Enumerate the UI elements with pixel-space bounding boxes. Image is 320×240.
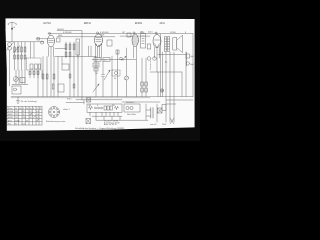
svg-text:220V: 220V (162, 124, 167, 126)
svg-text:0,5: 0,5 (121, 59, 124, 61)
svg-text:0,1: 0,1 (95, 59, 98, 61)
svg-text:ECH11: ECH11 (8, 111, 13, 113)
svg-text:250: 250 (23, 117, 26, 119)
svg-text:0,1: 0,1 (104, 59, 107, 61)
svg-text:1M: 1M (95, 73, 98, 75)
svg-text:EBF11: EBF11 (8, 114, 13, 116)
svg-text:50: 50 (114, 78, 116, 80)
svg-text:Entbr.: Entbr. (67, 98, 72, 101)
svg-text:Röhrenfassung von unten: Röhrenfassung von unten (46, 120, 65, 123)
svg-text:Ua: Ua (26, 108, 28, 110)
svg-text:AZ11: AZ11 (8, 119, 12, 122)
svg-text:250: 250 (15, 117, 18, 119)
svg-text:5,5: 5,5 (30, 114, 32, 116)
svg-text:zum LS: zum LS (150, 124, 157, 126)
svg-text:Ik: Ik (33, 108, 34, 110)
svg-text:Ug: Ug (30, 108, 32, 110)
svg-text:Aufn. ca. 45 W: Aufn. ca. 45 W (104, 123, 117, 126)
svg-text:Röhre: Röhre (8, 107, 13, 110)
svg-text:0,2: 0,2 (23, 123, 25, 125)
svg-text:100/250: 100/250 (57, 29, 64, 31)
svg-text:60: 60 (26, 120, 28, 122)
svg-text:5000: 5000 (94, 65, 98, 67)
svg-text:0,1/3000V: 0,1/3000V (100, 32, 109, 34)
svg-text:225: 225 (15, 114, 18, 116)
svg-text:0,1: 0,1 (15, 123, 17, 125)
svg-text:W1: W1 (89, 105, 92, 107)
svg-text:EFM11: EFM11 (135, 23, 143, 25)
svg-text:AZ11: AZ11 (160, 22, 166, 25)
svg-text:85: 85 (23, 111, 25, 113)
svg-text:Ua: Ua (15, 108, 17, 110)
svg-text:(Nr. der Schaltung): (Nr. der Schaltung) (21, 100, 37, 103)
svg-text:90: 90 (23, 114, 25, 116)
svg-text:Ug: Ug (19, 108, 21, 110)
svg-text:6,3: 6,3 (37, 114, 39, 116)
svg-text:2,1: 2,1 (30, 111, 32, 113)
svg-text:Schaltbild des Gerätes — Ori: Schaltbild des Gerätes — Original-Schalt… (75, 127, 125, 130)
svg-text:Ik: Ik (23, 108, 24, 110)
svg-text:220/240 V: 220/240 V (126, 102, 135, 104)
svg-text:36: 36 (30, 117, 32, 119)
svg-text:EBF11: EBF11 (84, 23, 92, 25)
svg-text:25/350: 25/350 (170, 32, 176, 34)
svg-text:ECH11: ECH11 (44, 23, 52, 25)
svg-text:4: 4 (37, 120, 38, 122)
svg-text:Ska.: Ska. (8, 123, 12, 125)
svg-text:W2: W2 (112, 105, 115, 107)
svg-text:0,1/3000V: 0,1/3000V (63, 32, 72, 34)
svg-text:6,3: 6,3 (37, 111, 39, 113)
svg-text:4x0,5: 4x0,5 (148, 32, 153, 34)
svg-text:225: 225 (15, 111, 18, 113)
svg-text:8: 8 (185, 32, 186, 34)
svg-text:5000: 5000 (58, 35, 62, 37)
svg-text:EFM11: EFM11 (8, 117, 13, 119)
svg-text:+Gitter 2: +Gitter 2 (63, 108, 70, 111)
svg-text:6,3: 6,3 (37, 117, 39, 119)
svg-text:2x300: 2x300 (15, 120, 20, 122)
svg-text:Netz 50Hz: Netz 50Hz (127, 113, 136, 116)
